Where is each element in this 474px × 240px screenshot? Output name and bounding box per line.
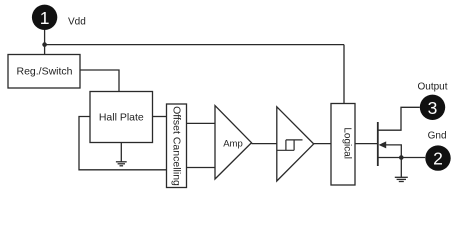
wire Hall Plate right to Offset Cancelling: [153, 116, 167, 118]
wire Offset Cancelling to Amp lower: [187, 167, 216, 169]
hysteresis symbol: [277, 140, 303, 150]
pin circle 3 (Output pin): [420, 95, 445, 120]
svg-text:1: 1: [40, 8, 50, 28]
wire Amp to Schmitt trigger: [252, 143, 277, 145]
transistor substrate wire: [386, 145, 402, 158]
wire Vdd rail to Reg./Switch: [44, 45, 46, 55]
ground under Hall Plate: [116, 143, 127, 166]
wire Reg./Switch to Hall Plate: [80, 70, 119, 92]
transistor Q1 channel bar: [377, 122, 379, 166]
block Offset Cancelling: [167, 104, 187, 188]
wire Offset Cancelling to Amp upper: [187, 122, 216, 124]
ground at source: [395, 158, 408, 182]
svg-text:Offset Cancelling: Offset Cancelling: [171, 106, 183, 186]
svg-text:Logical: Logical: [342, 127, 353, 159]
wire pin1 to Vdd junction: [44, 30, 46, 45]
wire Vdd rail down into Logical: [343, 45, 345, 104]
junction dot Vdd node: [42, 42, 47, 47]
svg-text:Output: Output: [417, 82, 447, 93]
wire Vdd rail horizontal: [45, 44, 344, 46]
wire Hall Plate left loop to Offset Cancelling: [79, 117, 167, 170]
block Reg./Switch: [8, 55, 80, 89]
svg-text:3: 3: [428, 98, 438, 118]
transistor substrate arrowhead: [379, 141, 387, 148]
junction dot source node: [399, 155, 404, 160]
svg-text:Amp: Amp: [223, 139, 243, 150]
wire Schmitt to Logical: [314, 143, 331, 145]
transistor source wire to Gnd pin: [378, 157, 425, 159]
transistor drain wire to Output pin: [378, 107, 420, 130]
svg-text:Vdd: Vdd: [68, 17, 86, 28]
pin circle 1 (Vdd pin): [32, 5, 57, 30]
svg-text:Gnd: Gnd: [428, 131, 447, 142]
svg-text:Reg./Switch: Reg./Switch: [16, 66, 72, 78]
Schmitt trigger triangle: [277, 107, 314, 181]
svg-text:2: 2: [433, 149, 443, 169]
svg-text:Hall Plate: Hall Plate: [99, 112, 144, 124]
wire Logical to transistor gate: [355, 143, 378, 145]
pin circle 2 (Gnd pin): [425, 145, 450, 170]
block Logical: [331, 104, 355, 186]
op-amp Amp triangle: [215, 106, 252, 179]
block Hall Plate: [90, 92, 153, 143]
